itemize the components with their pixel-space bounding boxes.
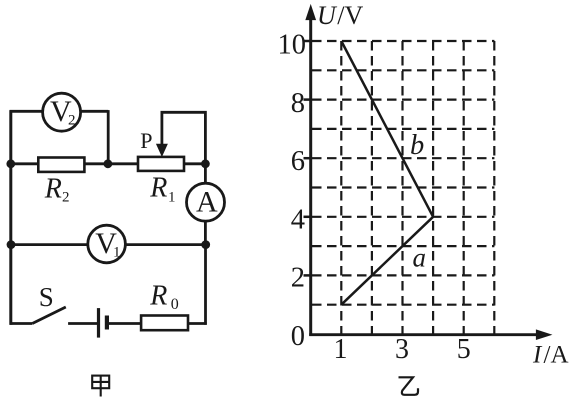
vertical dashed gridlines i=1..6 [341,41,494,334]
x tick label 1 [334,334,348,365]
svg-text:/V: /V [337,1,363,30]
svg-text:5: 5 [457,334,471,365]
curve b: (1,10)-(4,4) [341,41,433,217]
node: R1 right junction [201,159,210,168]
slider arrow head [157,144,167,156]
x-axis arrow head [536,330,550,339]
wire: right bus down [204,245,207,325]
svg-text:0: 0 [291,321,305,352]
wire: left bus vertical [9,110,12,325]
ammeter A [187,183,225,221]
y tick label 4 [291,204,305,235]
resistor R0 [141,316,188,331]
svg-text:b: b [410,130,424,161]
node: left R2 row junction [6,159,15,168]
label S [39,282,54,312]
wire: V2 loop right vertical down to node [107,110,110,164]
battery long plate [97,308,100,338]
x-axis I [309,333,538,336]
y tick label 6 [291,146,305,177]
svg-text:2: 2 [291,263,305,294]
wire: top row to V2 [10,110,43,113]
y-axis arrow head [306,6,315,20]
wire: V2 right to corner [81,110,109,113]
label 乙 (drawn strokes) [399,377,419,395]
wire: switch to battery [68,322,97,325]
wire: ammeter down to node [204,221,207,245]
wire: between R2 and R1 [84,162,138,165]
label R1 [149,173,175,206]
wire: node down to ammeter [204,164,207,183]
svg-text:1: 1 [168,190,176,206]
axis title U/V [317,1,364,30]
svg-text:3: 3 [395,334,409,365]
y tick label 0 [291,321,305,352]
voltmeter V2 [43,93,81,131]
svg-text:0: 0 [171,296,179,313]
svg-text:10: 10 [278,29,307,60]
svg-text:2: 2 [62,190,70,206]
y-axis U [309,17,312,336]
svg-text:4: 4 [291,204,305,235]
curve a: (1,1)-(4,4) [341,217,433,305]
slider P bracket wire [162,112,206,164]
svg-text:1: 1 [334,334,348,365]
voltmeter V1 [88,225,126,263]
y tick label 2 [291,263,305,294]
y tick label 8 [291,88,305,119]
rheostat R1 box [138,157,184,171]
svg-text:6: 6 [291,146,305,177]
axis title I/A [532,342,569,369]
x tick label 3 [395,334,409,365]
svg-text:R: R [44,174,62,205]
horizontal dashed gridlines u=1..10 [312,41,494,305]
label 甲 (drawn strokes) [92,376,109,397]
node: V1 right junction [201,240,210,249]
switch S blade [32,307,66,324]
label a [413,243,427,273]
wire: V1 row left segment [11,243,88,246]
svg-text:A: A [196,186,218,219]
node: left V1 row junction [7,240,16,249]
wire: R2 row left segment [11,162,39,165]
svg-text:1: 1 [113,245,121,261]
wire: battery to R0 [109,322,141,325]
battery short plate [105,316,109,330]
wire: R0 to right corner [188,322,207,325]
svg-text:P: P [140,128,152,153]
x tick label 5 [457,334,471,365]
svg-text:R: R [149,280,167,311]
y tick label 10 [278,29,307,60]
resistor R2 [38,158,84,172]
svg-text:/A: /A [544,342,569,369]
label b [410,130,424,161]
y-axis ticks at even units [304,41,310,275]
svg-text:2: 2 [68,113,76,129]
svg-text:U: U [317,1,338,30]
wire: bottom left segment to switch [10,322,33,325]
svg-text:R: R [149,173,167,204]
node: R2-V2 right junction [104,159,113,168]
svg-text:S: S [39,282,54,312]
label R2 [44,174,70,206]
wire: R1 right to node [184,162,205,165]
svg-text:8: 8 [291,88,305,119]
label P [140,128,152,153]
label R0 [149,280,179,313]
svg-text:I: I [532,342,543,369]
wire: V1 right segment [125,243,206,246]
svg-text:a: a [413,243,427,273]
